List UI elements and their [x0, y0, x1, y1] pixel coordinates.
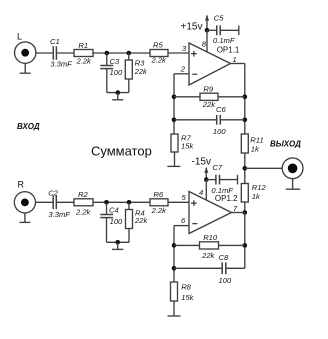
wire R3 bottom stem: [128, 79, 130, 93]
wire R4 bottom stem: [128, 229, 130, 243]
wire C1 to R1: [57, 52, 74, 54]
stub termination (C7): [237, 175, 239, 185]
ground (R7): [167, 165, 180, 167]
wire R4 top stem: [128, 202, 130, 209]
node junction R4 tap: [127, 200, 132, 205]
resistor R5: [150, 50, 168, 57]
svg-text:C3: C3: [110, 57, 120, 66]
wire R8 bottom stem: [173, 301, 175, 316]
wire C6 right: [221, 119, 245, 121]
op-amp OP1.2: [189, 192, 232, 234]
wire C7 to stub: [220, 179, 238, 181]
output jack: [282, 158, 303, 179]
resistor R1: [74, 50, 93, 57]
svg-text:R5: R5: [153, 41, 163, 50]
svg-text:7: 7: [233, 204, 238, 213]
svg-text:2: 2: [180, 65, 186, 74]
wire C5 to stub: [220, 29, 238, 31]
svg-text:2.2k: 2.2k: [75, 208, 92, 217]
node junction C3 tap: [105, 51, 110, 56]
wire R3 top stem: [128, 53, 130, 60]
wire C2 to R2: [57, 201, 75, 203]
svg-text:R: R: [18, 180, 25, 190]
minus sign (OP1.1): [192, 73, 197, 75]
node junction C4 tap: [104, 200, 109, 205]
svg-text:Сумматор: Сумматор: [91, 144, 152, 159]
node junction R10 left: [172, 243, 177, 248]
svg-text:22k: 22k: [201, 251, 215, 260]
wire C6 left: [174, 119, 217, 121]
svg-text:1: 1: [233, 55, 237, 64]
svg-text:4: 4: [199, 188, 203, 197]
wire R7 bottom stem: [174, 152, 176, 166]
svg-text:C6: C6: [216, 105, 226, 114]
resistor R9: [200, 93, 218, 100]
resistor R6: [150, 199, 168, 206]
wire -15v to C7: [206, 179, 215, 181]
svg-text:R11: R11: [250, 136, 263, 145]
resistor R2: [74, 199, 93, 206]
svg-text:R10: R10: [203, 233, 218, 242]
wire pin 6 to feedback column: [174, 226, 189, 282]
svg-text:R12: R12: [252, 183, 267, 192]
svg-text:0.1mF: 0.1mF: [213, 36, 235, 45]
node junction C8 left: [172, 266, 177, 271]
wire jack L to C1: [36, 52, 53, 54]
svg-text:100: 100: [110, 217, 123, 226]
stub termination (C5): [238, 26, 240, 36]
svg-text:ВХОД: ВХОД: [17, 122, 40, 131]
node junction output tap: [243, 166, 248, 171]
plus sign (OP1.2): [191, 200, 197, 206]
wire R6 to op-amp pin 5: [168, 201, 189, 203]
ground (C3/R3): [112, 93, 123, 100]
wire C3 bottom stem: [106, 69, 108, 93]
svg-text:C2: C2: [48, 188, 58, 197]
svg-text:C7: C7: [212, 163, 222, 172]
svg-text:6: 6: [181, 216, 186, 225]
power arrow -15v: [204, 167, 208, 180]
node junction C6 right: [243, 118, 248, 123]
svg-text:3.3mF: 3.3mF: [50, 60, 72, 69]
svg-text:22k: 22k: [202, 100, 216, 109]
wire +15v to C5: [207, 29, 217, 31]
node junction R9 right: [243, 95, 248, 100]
ground (C4/R4): [112, 242, 123, 249]
node junction R10 right: [243, 243, 248, 248]
ground (output jack): [286, 179, 301, 190]
resistor R8: [171, 282, 178, 301]
power arrow +15v: [205, 15, 209, 31]
node junction R9 left: [172, 95, 177, 100]
svg-text:22k: 22k: [134, 67, 148, 76]
wire C4/R4 bottom join: [107, 241, 130, 243]
wire C4 top stem: [106, 202, 108, 214]
svg-text:OP1.2: OP1.2: [215, 194, 238, 203]
svg-text:3: 3: [182, 44, 187, 53]
wire R11 to R12: [244, 153, 246, 184]
svg-text:3.3mF: 3.3mF: [48, 210, 70, 219]
wire C3 top stem: [106, 53, 108, 65]
node junction C6 left: [172, 118, 177, 123]
wire R1 to R5: [93, 52, 150, 54]
svg-text:C8: C8: [219, 253, 229, 262]
plus sign (OP1.1): [191, 51, 197, 57]
node junction ground tap (C3/R3): [116, 90, 121, 95]
wire jack R to C2: [36, 201, 54, 203]
svg-text:R2: R2: [78, 190, 88, 199]
wire R12 to OP1.2 output node: [244, 202, 246, 213]
svg-text:8: 8: [202, 40, 207, 49]
svg-text:L: L: [17, 32, 22, 42]
capacitor C5: [217, 25, 220, 35]
resistor R4: [126, 210, 133, 229]
svg-text:2.2k: 2.2k: [76, 57, 93, 66]
svg-text:R8: R8: [181, 283, 191, 292]
node junction ground tap (C4/R4): [115, 240, 120, 245]
ground (jack L): [20, 63, 31, 73]
capacitor C4: [100, 215, 113, 218]
svg-text:ВЫХОД: ВЫХОД: [270, 140, 301, 149]
node junction -15v: [204, 177, 209, 182]
svg-text:+15v: +15v: [181, 22, 203, 33]
node junction R3 tap: [127, 51, 132, 56]
capacitor C2: [53, 196, 56, 210]
svg-text:100: 100: [219, 276, 232, 285]
svg-text:R6: R6: [153, 190, 163, 199]
svg-text:100: 100: [110, 68, 123, 77]
input jack R: [14, 192, 35, 213]
wire R2 to R6: [93, 201, 150, 203]
svg-text:15k: 15k: [181, 142, 194, 151]
svg-text:100: 100: [213, 127, 226, 136]
capacitor C1: [53, 46, 56, 60]
wire R9 right: [218, 96, 245, 98]
wire pin 2 to feedback column: [174, 74, 189, 134]
input jack L: [15, 42, 36, 63]
wire C8 right: [226, 267, 245, 269]
resistor R7: [171, 134, 178, 152]
node junction OP1.2 output: [243, 210, 248, 215]
svg-text:15k: 15k: [181, 293, 194, 302]
svg-text:22k: 22k: [134, 216, 148, 225]
ground (R8): [168, 315, 181, 317]
capacitor C8: [222, 262, 226, 274]
svg-text:2.2k: 2.2k: [151, 206, 168, 215]
wire to output jack: [245, 167, 282, 169]
node junction +15v: [205, 28, 210, 33]
resistor R11: [241, 134, 248, 153]
svg-text:C5: C5: [214, 14, 224, 23]
svg-text:1k: 1k: [251, 145, 260, 154]
minus sign (OP1.2): [192, 223, 197, 225]
wire output column down: [244, 213, 246, 269]
capacitor C6: [217, 115, 221, 125]
wire C4 bottom stem: [106, 218, 108, 243]
ground (jack R): [20, 213, 31, 223]
svg-text:2.2k: 2.2k: [151, 56, 168, 65]
svg-text:R1: R1: [78, 41, 88, 50]
wire pin 8 stem: [206, 30, 208, 52]
wire C8 left: [174, 267, 222, 269]
svg-text:OP1.1: OP1.1: [217, 45, 240, 54]
wire C3/R3 bottom join: [107, 92, 129, 94]
wire R9 left: [174, 96, 200, 98]
svg-text:5: 5: [182, 193, 187, 202]
svg-text:-15v: -15v: [192, 157, 211, 168]
svg-text:R9: R9: [203, 84, 213, 93]
wire op-amp 2 output: [232, 212, 245, 214]
resistor R3: [125, 60, 132, 79]
resistor R10: [200, 242, 219, 249]
svg-text:C4: C4: [109, 206, 119, 215]
resistor R12: [241, 184, 248, 203]
svg-text:1k: 1k: [252, 192, 261, 201]
wire op-amp 1 output: [231, 64, 245, 135]
wire R10 left: [174, 244, 200, 246]
wire R10 right: [219, 244, 245, 246]
wire pin 4 stem: [205, 180, 207, 200]
capacitor C3: [100, 66, 113, 69]
op-amp OP1.1: [189, 43, 231, 85]
svg-text:C1: C1: [50, 37, 60, 46]
wire R5 to op-amp pin 3: [168, 52, 189, 54]
capacitor C7: [216, 175, 220, 185]
